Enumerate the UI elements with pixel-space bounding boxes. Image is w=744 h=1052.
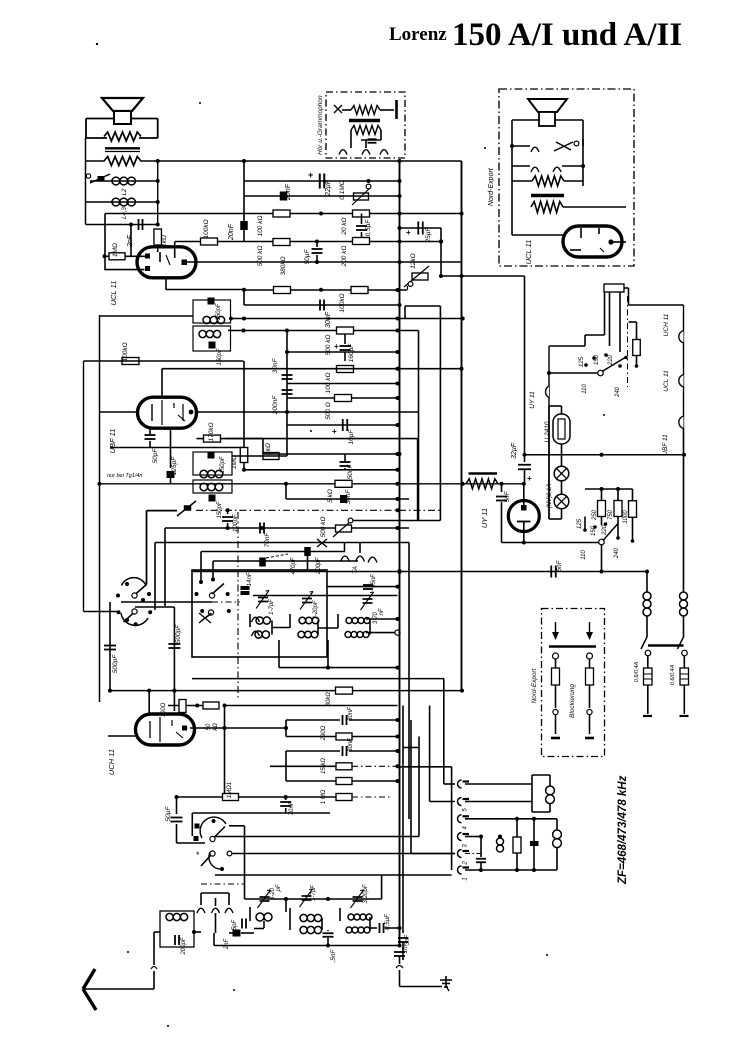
wire tube lower-left pin row	[105, 269, 145, 271]
wire TA drop 1	[344, 543, 346, 552]
wire UCH11 anode y728	[108, 704, 286, 737]
bottom bus y945	[214, 945, 400, 947]
tube UCL11 envelope	[137, 247, 196, 278]
wire selector2 down	[601, 545, 603, 572]
svg-text:150pF: 150pF	[216, 303, 222, 320]
junction y510	[226, 508, 400, 512]
svg-text:100kΩ: 100kΩ	[122, 342, 129, 361]
capacitor 30nF y499	[340, 489, 352, 505]
wave switch arrow	[147, 501, 197, 516]
wire UCL11 anode row	[187, 261, 462, 263]
band switch 2 arc	[196, 850, 232, 871]
tube UCL11 pins	[145, 247, 187, 271]
wire y438 corner down x417	[417, 439, 419, 521]
junction y213 x321	[319, 212, 464, 216]
wire y276 row	[441, 275, 525, 277]
svg-text:30nF: 30nF	[345, 489, 352, 505]
export switch row2	[512, 164, 585, 172]
junction y181 x369	[367, 179, 402, 183]
svg-text:50nF: 50nF	[347, 464, 354, 480]
junction y728	[223, 726, 289, 730]
note nur bei	[107, 473, 142, 479]
main bus vertical x461	[461, 161, 463, 691]
svg-text:+: +	[406, 228, 411, 237]
wire 20nF row y196	[244, 195, 400, 197]
svg-text:nF: nF	[247, 572, 253, 579]
tube UCH11 envelope	[135, 714, 194, 745]
capacitor 50pF	[145, 429, 160, 464]
wire y875 row	[215, 874, 452, 876]
wire x214 bottom	[213, 933, 215, 946]
wire node column x158	[157, 161, 159, 225]
svg-text:1MΩ: 1MΩ	[112, 243, 119, 257]
trap coil 2	[553, 830, 562, 848]
svg-text:240: 240	[614, 547, 620, 559]
Nord-Export dash-dot box	[499, 89, 634, 266]
wire IFT top y290	[244, 289, 407, 291]
wire grid stub UCL11	[174, 242, 176, 248]
svg-text:110: 110	[581, 550, 587, 560]
wire x381 down	[381, 875, 383, 899]
junction y276 x461	[460, 274, 464, 278]
svg-text:2nF: 2nF	[224, 938, 230, 950]
wire coil2 down	[683, 616, 685, 637]
resistor 1MOhm grid	[109, 243, 125, 260]
tube UCL11 export pins	[570, 228, 626, 252]
selector 2 contacts	[583, 517, 634, 543]
svg-text:110: 110	[582, 384, 588, 394]
gang dash vertical	[237, 512, 239, 700]
wire x213 into box	[211, 561, 215, 582]
capacitor 5nF ps	[496, 484, 511, 543]
wire pot wiper y520	[353, 520, 440, 522]
title text 150 A/I und A/II	[452, 17, 682, 53]
svg-text:380kΩ: 380kΩ	[280, 256, 287, 275]
capacitor 2nF grid	[127, 219, 143, 248]
wire speaker left vertical	[85, 138, 87, 225]
trap resistor	[513, 819, 521, 870]
fuse switch 1 lever	[641, 637, 684, 656]
wire y352 row	[287, 351, 398, 353]
selector 1 lever	[547, 357, 626, 376]
capacitor 2nF ant	[224, 930, 254, 951]
svg-text:50µF: 50µF	[165, 806, 172, 822]
junction y499	[396, 497, 400, 501]
capacitor 32uF	[511, 442, 532, 484]
trimmer 1-7pF box	[256, 591, 275, 615]
svg-text:100kΩ: 100kΩ	[203, 219, 210, 238]
trimmer 3-20pF input	[258, 884, 283, 908]
svg-text:12kΩ: 12kΩ	[410, 253, 417, 268]
wire screen row y438	[197, 438, 418, 440]
osc coil row1 a	[256, 617, 270, 624]
selector gang dash	[627, 296, 629, 387]
block switch 2	[586, 622, 593, 668]
capacitor 50nF	[340, 454, 355, 479]
Grammophon dash-dot box	[326, 92, 405, 158]
junction y412 x287	[285, 410, 289, 414]
svg-text:20nF: 20nF	[228, 223, 235, 241]
junction y398	[396, 396, 400, 400]
junction y241 x317	[315, 240, 443, 244]
tube UBF11 envelope	[138, 397, 197, 428]
wire y602 row	[121, 601, 240, 603]
svg-text:125pF: 125pF	[171, 456, 178, 475]
trimmer 3-20pF input b	[351, 884, 370, 908]
trap block 2	[556, 819, 558, 870]
trimmer 3-20pF box	[300, 592, 319, 620]
capacitor 05uF	[380, 914, 400, 933]
heater bump UCH11	[663, 313, 684, 343]
wire left outer vertical	[83, 361, 85, 612]
junction y667	[326, 666, 400, 670]
svg-text:170kΩ: 170kΩ	[208, 422, 215, 441]
heater chain to coil2	[683, 429, 685, 593]
wire y425 row	[287, 424, 398, 426]
wire y499 row	[286, 498, 409, 500]
junction y899	[284, 897, 330, 901]
heater bump UY11	[529, 386, 549, 409]
lattice y747 stub	[403, 747, 419, 749]
tube UY11 label	[480, 508, 489, 528]
selector taps	[605, 292, 621, 352]
wire x105 vertical	[104, 214, 106, 271]
wire y633 row	[366, 632, 398, 634]
tube UCL11 label	[109, 281, 118, 306]
wire y612 row	[135, 606, 175, 608]
resistor 1kohm vertical	[154, 229, 168, 252]
svg-text:290Ω: 290Ω	[321, 725, 327, 741]
capacitor 5nF bottom	[323, 930, 338, 963]
resistor y797 right	[336, 794, 352, 801]
lamp wire mid	[561, 481, 563, 494]
terminal2 dash	[465, 853, 481, 855]
band switch 1 arc	[194, 817, 227, 841]
wire x409 corner down	[408, 543, 410, 820]
svg-text:+: +	[527, 474, 532, 483]
selector 1 contacts	[584, 353, 628, 368]
filter choke	[466, 474, 498, 489]
junction y945	[326, 926, 402, 948]
capacitor 22uF electrolytic	[308, 170, 332, 197]
capacitor 55nF	[363, 574, 377, 589]
wire y561 row	[213, 560, 358, 562]
input coil 4	[300, 926, 322, 933]
trap coil 1	[546, 786, 555, 804]
svg-text:UY 11: UY 11	[529, 391, 536, 409]
lamp labels	[547, 484, 553, 509]
wire coil1 down	[646, 616, 648, 637]
junction y586	[396, 585, 400, 589]
potentiometer 0.1MOhm	[339, 180, 371, 205]
mains coil 2	[680, 592, 688, 616]
junction y528	[226, 526, 400, 530]
junction y542	[522, 541, 526, 545]
capacitor 5nF series	[551, 559, 563, 577]
svg-text:Hör u.-Grammophon: Hör u.-Grammophon	[317, 95, 324, 155]
IFT1 coil	[203, 316, 225, 323]
svg-text:750: 750	[608, 509, 614, 520]
IFT1 box	[193, 300, 231, 323]
resistor 1MOhm y797	[223, 782, 239, 801]
antenna wires	[83, 932, 160, 989]
wire x287 vertical	[286, 331, 288, 414]
svg-text:UCL 11: UCL 11	[663, 370, 670, 392]
ballast U2410	[544, 414, 570, 444]
wire y542 right	[502, 542, 602, 544]
wire x286 down	[285, 899, 287, 912]
selector 1 labels	[579, 354, 621, 398]
svg-text:UCL 11: UCL 11	[109, 281, 118, 306]
resistor 50kOhm	[203, 702, 219, 731]
junction y352	[285, 350, 400, 354]
svg-text:5 kΩ: 5 kΩ	[327, 489, 334, 503]
fuse 2 label	[670, 664, 676, 685]
wire anode to IFT1	[166, 289, 244, 291]
resistor 15kOhm b	[321, 778, 352, 805]
svg-text:100 kΩ: 100 kΩ	[257, 216, 264, 237]
svg-text:Blockierung: Blockierung	[569, 684, 576, 718]
svg-text:220: 220	[602, 524, 608, 536]
selector1 contact wires	[549, 335, 605, 346]
Grammophon label	[317, 95, 324, 155]
antenna cap 200pF	[175, 935, 187, 956]
wire y611 stub	[84, 611, 119, 613]
svg-text:(NV)0,1A: (NV)0,1A	[547, 484, 553, 509]
resistor 1MOhm avc	[231, 448, 248, 469]
resistor 500kOhm y330	[325, 327, 354, 355]
capacitor 14nF	[241, 572, 254, 595]
output transformer core	[105, 148, 140, 151]
terminal 5	[458, 798, 470, 812]
capacitor 20nF series	[280, 183, 292, 201]
wire AF row y213	[105, 213, 462, 215]
osc coil row interconnect	[250, 614, 370, 635]
svg-text:L2: L2	[122, 188, 128, 195]
svg-text:150: 150	[594, 354, 600, 365]
wire terminal6 right	[465, 783, 532, 785]
heater bump UBF11	[662, 416, 684, 456]
osc coil row2 c	[345, 632, 369, 638]
wire y884 gang dash	[201, 883, 245, 885]
svg-text:UBF 11: UBF 11	[662, 434, 669, 456]
wire y702 row	[147, 689, 217, 714]
rotary switch 2 arc	[117, 609, 153, 626]
capacitor 30nF loop2	[343, 738, 355, 756]
svg-text:5nF: 5nF	[504, 490, 511, 502]
output transformer secondary winding	[104, 157, 141, 166]
wire y813 corner	[191, 813, 193, 836]
wire x100 feed	[100, 315, 194, 702]
block fuse 1	[551, 668, 560, 738]
wire y454 row	[263, 453, 398, 455]
resistor 220 vert	[629, 322, 641, 368]
wire x201 into box	[199, 552, 203, 585]
svg-text:ZF=468/473/478 kHz: ZF=468/473/478 kHz	[617, 775, 629, 885]
svg-text:500pF: 500pF	[175, 624, 182, 643]
wire tone row1	[90, 180, 158, 182]
label 200pF	[316, 557, 322, 575]
svg-text:UCL 11: UCL 11	[524, 240, 533, 265]
resistor 100kOhm screen	[201, 219, 218, 245]
lattice x419	[418, 737, 420, 837]
capacitor 30nF loop1	[343, 707, 355, 725]
wire coilbox right	[192, 930, 201, 934]
svg-text:Nord-Export: Nord-Export	[488, 167, 495, 206]
terminal 3	[458, 833, 470, 848]
osc coil row1 c	[346, 618, 370, 624]
potentiometer 12kOhm	[404, 253, 429, 290]
capacitor 100pF	[222, 510, 239, 532]
oscillator switch contacts	[195, 584, 231, 624]
IFT3 box	[193, 452, 232, 475]
IFT2 capacitor 150pF	[209, 342, 224, 366]
svg-text:500 kΩ: 500 kΩ	[320, 517, 327, 538]
capacitor 160uF	[334, 334, 355, 362]
capacitor 200nF	[272, 390, 293, 415]
svg-text:0,6/0,4A: 0,6/0,4A	[670, 664, 676, 685]
svg-text:0,6/0,4A: 0,6/0,4A	[634, 661, 640, 682]
speck	[96, 43, 605, 1027]
Grammophon contacts	[339, 150, 388, 155]
lattice x429	[430, 706, 455, 802]
capacitor 50uF cathode	[304, 242, 323, 265]
wire main bus y571	[192, 571, 647, 573]
fuse switch 2 lever	[678, 637, 688, 656]
mains coil 1	[643, 592, 651, 616]
Grammophon core bar	[349, 119, 380, 123]
svg-text:3: 3	[463, 844, 469, 848]
resistor 750 vert	[608, 489, 622, 520]
junction x441	[439, 240, 443, 279]
wire main B+ row y161	[86, 160, 462, 162]
svg-text:150pF: 150pF	[220, 456, 226, 473]
wire 22uF row y181	[244, 180, 400, 182]
input coil 3	[348, 914, 372, 920]
capacitor 5pF	[232, 919, 246, 931]
heater chain right x683	[683, 305, 685, 592]
capacitor 1nF bottom	[394, 941, 409, 964]
wire terminal5 right	[465, 801, 532, 803]
resistor 500 Ohm	[325, 395, 352, 420]
svg-text:4: 4	[463, 826, 469, 830]
svg-text:500pF: 500pF	[112, 654, 119, 673]
svg-text:5pF: 5pF	[232, 919, 238, 930]
wire x244 tuning bus	[244, 826, 246, 899]
wire x146 vertical	[146, 511, 148, 585]
svg-text:3-20pF: 3-20pF	[363, 884, 369, 903]
IFT4 coil	[200, 483, 223, 491]
svg-text:30nF: 30nF	[325, 311, 332, 328]
loudspeaker LS1	[102, 98, 143, 124]
input coil 1	[256, 913, 272, 921]
wire y705 thick row	[225, 705, 398, 707]
wire x244 y289-305	[243, 290, 245, 305]
svg-text:20 kΩ: 20 kΩ	[341, 217, 348, 235]
tube UCL11 export envelope	[563, 226, 622, 257]
svg-text:+: +	[332, 427, 337, 436]
capacitor 25uF	[406, 222, 432, 244]
trap block 1	[532, 775, 550, 812]
wire screen row y241	[175, 241, 441, 243]
wire x287 y425-456	[286, 425, 288, 456]
resistor 1000 vert	[623, 489, 637, 524]
capacitor 470pF	[291, 547, 311, 575]
junction tone row1 right	[156, 179, 160, 183]
wire y552 row	[201, 551, 345, 553]
osc coil row1 b	[299, 617, 319, 624]
wire x287 y412-425	[286, 412, 288, 425]
tube UCL11 export label	[524, 240, 533, 265]
Grammophon resistor 2	[351, 126, 381, 135]
svg-text:100kΩ: 100kΩ	[339, 293, 346, 312]
wire x165 down	[164, 528, 166, 606]
gang dash-dot line y510	[196, 509, 440, 511]
svg-text:25µF: 25µF	[425, 227, 432, 244]
svg-text:pF: pF	[276, 884, 282, 892]
svg-text:*: *	[196, 850, 200, 860]
svg-text:15 kΩ: 15 kΩ	[321, 758, 327, 774]
svg-text:UCH 11: UCH 11	[663, 313, 670, 336]
fuse 1	[643, 656, 652, 716]
wire y305 row	[244, 304, 398, 306]
svg-text:nF: nF	[289, 801, 295, 808]
output transformer box wires	[86, 119, 158, 139]
rc loop 1	[286, 718, 400, 739]
resistor 1kOhm y456	[263, 443, 279, 459]
trap capacitor	[530, 819, 539, 870]
svg-text:UBF 11: UBF 11	[108, 429, 117, 454]
fuse 1 label	[634, 661, 640, 682]
svg-text:150pF: 150pF	[217, 348, 223, 365]
junction t4	[515, 817, 536, 821]
svg-text:240: 240	[615, 386, 621, 398]
svg-text:70nF: 70nF	[264, 532, 271, 548]
wire stub x286	[285, 484, 287, 499]
junction y797	[175, 795, 288, 799]
wire y383 row	[287, 383, 398, 385]
resistor 100kOhm osc	[122, 342, 139, 364]
svg-text:kΩ: kΩ	[213, 723, 219, 731]
svg-text:TA: TA	[352, 566, 359, 574]
resistor 150 Ohm top	[604, 284, 624, 292]
wire x162 to tube top	[161, 369, 163, 398]
IFT3 coil	[200, 470, 223, 478]
export transformer core	[531, 194, 564, 198]
IFT3 capacitor 150pF	[208, 452, 227, 474]
tube UBF11 internals	[152, 400, 193, 425]
wire y690 row	[110, 690, 462, 692]
Grammophon resistor 1	[334, 100, 397, 119]
wire avc x244 down	[243, 361, 245, 448]
wire x174 down	[173, 607, 175, 711]
antenna input contacts	[197, 893, 233, 913]
svg-text:0,5µF: 0,5µF	[365, 219, 372, 237]
lamp 2	[554, 494, 569, 509]
junction circle y633	[395, 630, 400, 635]
IFT2 box	[193, 326, 231, 351]
tube UY11 envelope	[508, 501, 539, 532]
svg-text:Nord-Export: Nord-Export	[531, 667, 538, 703]
tube UCH11 label	[107, 749, 116, 775]
junction y571	[600, 570, 650, 574]
svg-text:50: 50	[206, 723, 212, 730]
wire y483 row	[100, 483, 525, 485]
Nord-Export label 2	[531, 667, 538, 703]
terminal 2	[458, 850, 470, 866]
wire 1M row	[103, 254, 146, 258]
capacitor 0.5uF	[356, 219, 372, 237]
